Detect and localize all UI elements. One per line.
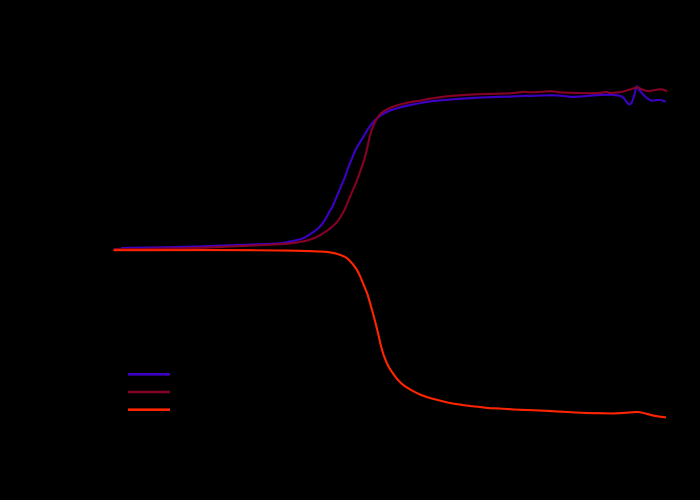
legend swatch series 1 (blue-violet) (128, 373, 170, 376)
curve series 2 (dark crimson, sigmoid rise) (114, 87, 667, 249)
curve series 3 (orange-red, sigmoid fall) (114, 250, 667, 417)
legend swatch series 2 (dark crimson) (128, 391, 170, 394)
legend swatch series 3 (orange-red) (128, 408, 170, 411)
curve series 1 (blue-violet, sigmoid rise with end wiggle) (121, 86, 666, 248)
